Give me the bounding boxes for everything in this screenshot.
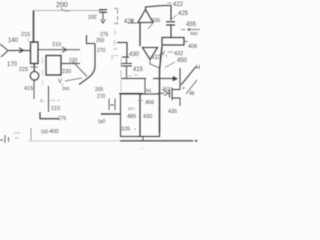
svg-text:430: 430: [143, 114, 152, 120]
svg-text:. ..:: . ..:: [138, 145, 144, 150]
svg-text:215: 215: [21, 32, 30, 38]
crossing wire: [73, 62, 87, 77]
svg-text:170: 170: [7, 62, 18, 68]
label 432: [168, 51, 173, 53]
dashes: [50, 100, 60, 102]
wire top rail: [34, 10, 104, 12]
svg-text:275: 275: [100, 32, 109, 38]
box right edge dark: [140, 94, 160, 137]
svg-text:432: 432: [174, 51, 183, 57]
wire jog into center: [87, 35, 96, 44]
ground rail dark: [120, 140, 198, 142]
wire vertical from top rail: [33, 11, 35, 44]
svg-text:225: 225: [19, 67, 28, 73]
svg-text:(a0: (a0: [98, 119, 105, 125]
main right rail: [160, 46, 163, 132]
capacitor C1 top: [99, 9, 107, 11]
wire current source down: [33, 80, 35, 99]
svg-text:270: 270: [97, 94, 106, 100]
wire right edge: [181, 29, 200, 31]
wire from box E down: [48, 86, 50, 112]
wire top of box: [119, 93, 143, 95]
capacitor C2: [166, 21, 175, 23]
capacitor bank left of box: [109, 99, 115, 111]
leader 425: [172, 15, 178, 19]
svg-text:260: 260: [62, 86, 70, 91]
svg-text:420: 420: [124, 19, 135, 25]
wire horizontal mid: [121, 78, 146, 80]
wire cap down: [102, 12, 104, 20]
svg-text:455: 455: [186, 22, 197, 28]
svg-text:435: 435: [168, 109, 177, 115]
battery marks bottom left: [0, 135, 9, 143]
wire resistor to current source: [33, 64, 35, 72]
svg-text:250: 250: [96, 38, 105, 44]
wire corner left: [117, 43, 127, 58]
input arrow: [0, 44, 8, 57]
mosfet M1: [158, 92, 164, 94]
svg-text:430: 430: [129, 52, 140, 58]
svg-text:466: 466: [145, 100, 154, 106]
svg-text:210: 210: [51, 106, 60, 112]
wire amp down: [139, 23, 141, 47]
leader 422: [167, 2, 172, 4]
svg-text:105: 105: [121, 127, 130, 133]
svg-text:46: 46: [189, 91, 195, 97]
svg-text:415: 415: [133, 67, 144, 73]
svg-text:230: 230: [62, 69, 71, 75]
svg-text:200: 200: [56, 2, 68, 9]
resistor R2 box: [162, 38, 184, 46]
svg-text:265: 265: [95, 87, 104, 93]
arrowhead: [62, 47, 67, 52]
wire R2 right: [184, 41, 188, 43]
svg-text:415: 415: [24, 86, 33, 92]
wire Vt: [65, 78, 82, 81]
wire inverter down: [150, 60, 160, 69]
svg-text:(a)-400: (a)-400: [41, 129, 59, 135]
divider: [139, 94, 141, 137]
dashed border right of cap: [95, 15, 97, 17]
dark wire under caps: [101, 113, 121, 115]
wire cap to resistor: [170, 25, 172, 38]
base extension: [128, 20, 138, 24]
block box with cells: [121, 94, 160, 137]
svg-text:44: 44: [195, 65, 200, 71]
solid arrowhead: [173, 76, 178, 81]
svg-text:450: 450: [177, 58, 188, 64]
svg-text:275: 275: [58, 116, 67, 122]
wire input: [8, 50, 31, 52]
wire stub box to rail: [142, 137, 144, 141]
svg-text:140: 140: [8, 38, 19, 44]
marks above wire: [128, 75, 138, 76]
svg-text:422: 422: [173, 2, 184, 8]
svg-text:cc~: cc~: [128, 106, 136, 111]
wire bottom left down: [30, 128, 32, 141]
dashed left vert: [120, 58, 122, 92]
svg-text:210: 210: [52, 42, 61, 48]
svg-text:485: 485: [127, 114, 136, 120]
dashed box top-center: [114, 9, 118, 24]
svg-text:270: 270: [97, 48, 106, 54]
arrowhead on input wire: [19, 48, 24, 53]
leader 450: [165, 62, 175, 68]
corner L bottom left: [40, 112, 59, 119]
svg-text:435: 435: [151, 18, 160, 24]
transistor Q1: [179, 68, 181, 88]
box 160 (left block): [46, 56, 61, 76]
svg-text:A,: A,: [40, 98, 44, 103]
svg-text:205: 205: [88, 15, 97, 21]
svg-text:56.: 56.: [146, 88, 152, 93]
ground rail: [28, 140, 120, 142]
svg-text:460: 460: [190, 31, 198, 36]
wire with arrow to dashed box: [38, 49, 80, 51]
wire arrow to transistor: [153, 78, 173, 80]
junction tick: [30, 66, 38, 68]
svg-text:406: 406: [188, 44, 197, 50]
leader 435: [148, 23, 153, 29]
dashed divider: [114, 30, 118, 49]
leader 215: [27, 37, 30, 44]
resistor R1 (tall rect): [31, 42, 39, 64]
wire box right: [61, 63, 80, 65]
dashed line left of box: [42, 58, 44, 85]
capacitor C3: [121, 57, 132, 79]
curved wire center: [79, 44, 95, 85]
bracket mark: [112, 56, 118, 61]
arrowhead down: [101, 20, 105, 24]
current source circle: [30, 72, 39, 81]
inverter triangle 410: [143, 48, 158, 60]
node 200 leader: [61, 8, 69, 11]
amp triangle 420: [138, 10, 153, 23]
svg-text:425: 425: [178, 11, 189, 17]
wire apex up right: [146, 6, 172, 21]
